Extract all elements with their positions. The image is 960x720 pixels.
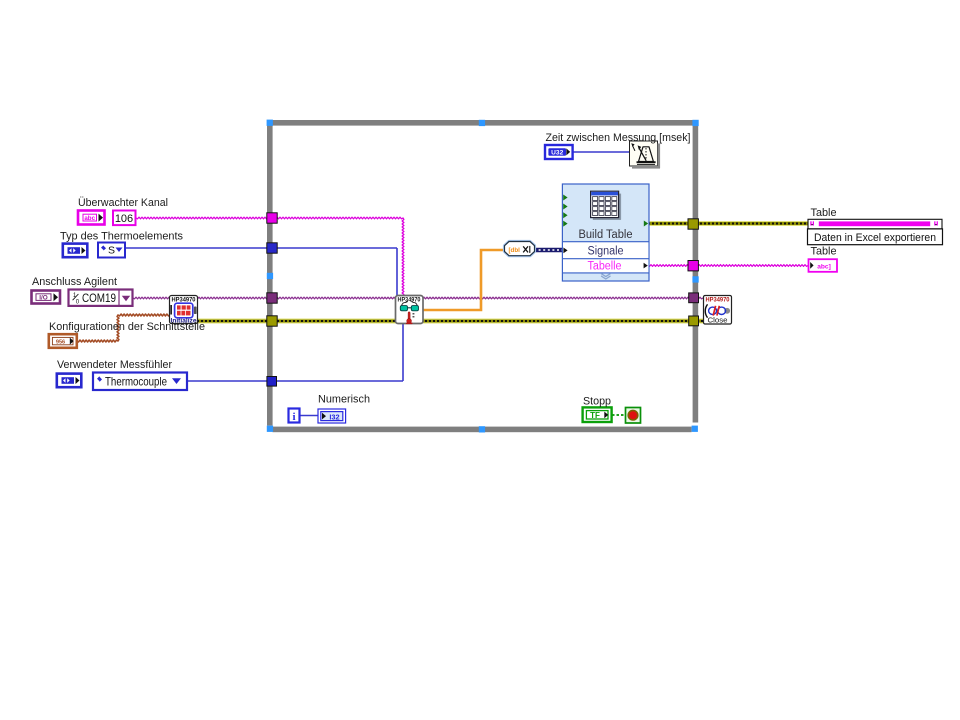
svg-text:956: 956: [56, 339, 65, 345]
svg-text:I32: I32: [329, 412, 339, 421]
svg-text:[dbl: [dbl: [509, 247, 521, 254]
svg-text:COM19: COM19: [82, 293, 116, 305]
svg-text:i: i: [292, 411, 295, 423]
svg-text:HP34970: HP34970: [706, 297, 731, 304]
svg-text:Überwachter Kanal: Überwachter Kanal: [78, 197, 168, 209]
svg-text:Anschluss Agilent: Anschluss Agilent: [32, 276, 117, 288]
svg-text:I/O: I/O: [39, 294, 48, 301]
svg-text:abc: abc: [84, 215, 95, 222]
svg-text:Daten in Excel exportieren: Daten in Excel exportieren: [814, 232, 936, 244]
svg-text:106: 106: [115, 213, 133, 225]
svg-text:Typ des Thermoelements: Typ des Thermoelements: [60, 231, 183, 243]
svg-text:Signale: Signale: [588, 245, 624, 257]
svg-text:TF: TF: [590, 411, 600, 420]
svg-text:HP34970: HP34970: [172, 296, 197, 303]
svg-text:Build Table: Build Table: [579, 229, 633, 241]
svg-text:S: S: [108, 245, 115, 257]
svg-text:Tabelle: Tabelle: [588, 260, 622, 272]
svg-text:Close: Close: [708, 316, 728, 325]
svg-text:abc]: abc]: [817, 263, 831, 270]
svg-text:U32: U32: [551, 150, 563, 157]
svg-text:Numerisch: Numerisch: [318, 394, 370, 406]
svg-text:HP34970: HP34970: [398, 297, 421, 304]
svg-text:Table: Table: [811, 207, 837, 219]
svg-text:Table: Table: [811, 246, 837, 258]
svg-text:Stopp: Stopp: [583, 396, 611, 408]
svg-text:Thermocouple: Thermocouple: [105, 375, 167, 389]
svg-text:Konfigurationen der Schnittste: Konfigurationen der Schnittstelle: [49, 321, 205, 333]
svg-text:Verwendeter Messfühler: Verwendeter Messfühler: [57, 359, 172, 371]
svg-text:Zeit zwischen Messung [msek]: Zeit zwischen Messung [msek]: [546, 132, 691, 144]
